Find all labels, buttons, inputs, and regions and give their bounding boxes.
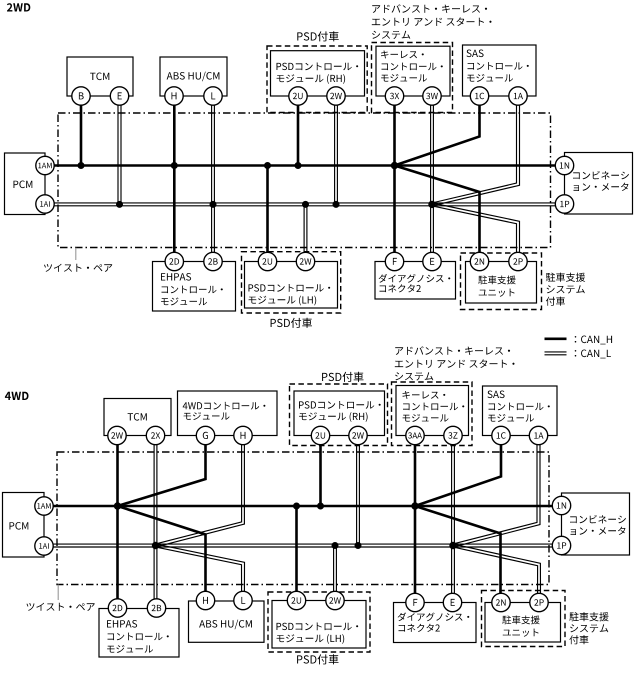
wire CAN_L PSD LH 2W drop (2WD): [303, 204, 305, 261]
pin 1A SAS (4WD): [529, 426, 547, 444]
junction CAN_L at TCM E (2WD): [116, 201, 123, 208]
PSD RH dashed enclosure (2WD): [267, 46, 367, 113]
bus CAN_H (2WD): [45, 164, 565, 167]
junction CAN_L at PSD LH 2W (2WD): [302, 201, 309, 208]
module TCM (2WD): [67, 57, 133, 96]
label PSD-equipped (above PSD RH, 4WD): [322, 372, 363, 382]
pin H ABS (4WD): [196, 591, 214, 609]
wire CAN_H parking 2N branch (2WD): [395, 166, 480, 262]
module ABS HU/CM (4WD): [189, 601, 265, 642]
pin 1C SAS (2WD): [470, 87, 488, 105]
pin 2B EHPAS (4WD): [147, 599, 165, 617]
wire CAN_L TCM 2X / EHPAS 2B drop (4WD): [153, 436, 155, 609]
wire CAN_H parking 2N branch (4WD): [415, 506, 501, 603]
pin B TCM (2WD): [72, 87, 90, 105]
wire CAN_H PSD LH 2U drop (4WD): [295, 506, 298, 601]
pin 2B EHPAS (2WD): [204, 252, 222, 270]
pin 2U PSD RH (2WD): [289, 87, 307, 105]
pin L ABS (2WD): [204, 87, 222, 105]
junction CAN_H main left node (4WD): [114, 502, 121, 509]
module EHPAS control module (4WD): [99, 609, 179, 658]
pin 2D EHPAS (2WD): [165, 252, 183, 270]
keyless dashed enclosure (4WD): [392, 382, 473, 446]
wire CAN_H PSD RH 2U drop (2WD): [297, 96, 300, 166]
wire CAN_L PSD RH 2W drop (4WD): [356, 436, 358, 546]
twisted-pair boundary box (4WD): [57, 452, 549, 585]
module parking assist unit (4WD): [485, 603, 561, 643]
pin 2U PSD RH (4WD): [311, 426, 329, 444]
module PSD control module LH (2WD): [245, 262, 338, 309]
label advanced keyless entry and start system (2WD) line1: [372, 4, 487, 13]
pin 2W PSD RH (2WD): [327, 87, 345, 105]
pin 2W PSD RH (4WD): [349, 426, 367, 444]
pin 1P meter (2WD): [555, 195, 573, 213]
pin 2P parking (4WD): [530, 593, 548, 611]
pin 3Z keyless (4WD): [444, 426, 462, 444]
pin F diagnosis (4WD): [406, 593, 424, 611]
junction CAN_L at ABS L (2WD): [210, 201, 217, 208]
pin 2W PSD LH (4WD): [326, 591, 344, 609]
wire CAN_H 4WD module G branch (4WD): [118, 436, 206, 507]
pin 1AM PCM (4WD): [35, 497, 53, 515]
junction CAN_L at PSD LH 2W (4WD): [332, 542, 339, 549]
pin 2U PSD LH (4WD): [287, 591, 305, 609]
module PSD control module LH (4WD): [272, 601, 366, 649]
twisted-pair callout line (4WD): [57, 585, 59, 601]
pin G 4WD module: [196, 426, 214, 444]
module keyless control module (4WD): [396, 386, 469, 436]
pin 2W TCM (4WD): [108, 426, 126, 444]
legend CAN_H: [545, 336, 613, 345]
label advanced keyless line2 (4WD): [395, 359, 515, 368]
junction CAN_H at PSD LH 2U (2WD): [264, 162, 271, 169]
pin E diagnosis (4WD): [443, 593, 461, 611]
pin 1AI PCM (4WD): [35, 537, 53, 555]
junction CAN_H at TCM B (2WD): [78, 162, 85, 169]
pin 1N meter (2WD): [555, 156, 573, 174]
pin 2U PSD LH (2WD): [258, 252, 276, 270]
wire CAN_L parking 2P branch (4WD): [453, 547, 538, 603]
wire CAN_H TCM B drop (2WD): [80, 96, 83, 166]
junction CAN_L main left node (4WD): [152, 542, 159, 549]
pin H 4WD module: [234, 426, 252, 444]
section title 4WD: [5, 392, 29, 400]
wire CAN_L SAS 1A branch (4WD): [453, 436, 537, 545]
label parking assist system equipped (2WD): [546, 273, 585, 306]
label PSD-equipped (below PSD LH, 4WD): [297, 654, 338, 664]
wire CAN_L SAS 1A branch (2WD): [432, 96, 517, 203]
module combination meter (2WD): [565, 153, 633, 215]
pin 3X keyless (2WD): [385, 87, 403, 105]
junction CAN_L at PSD RH 2W (2WD): [333, 201, 340, 208]
module diagnosis connector 2 (2WD): [375, 262, 456, 300]
module combination meter (4WD): [562, 493, 630, 555]
pin 1AM PCM (2WD): [36, 156, 54, 174]
module TCM (4WD): [104, 399, 171, 436]
module ABS HU/CM (2WD): [160, 57, 227, 96]
junction CAN_H at ABS H (2WD): [171, 162, 178, 169]
module PCM (4WD): [3, 493, 45, 558]
label advanced keyless line3 (2WD): [372, 31, 410, 39]
module EHPAS control module (2WD): [153, 262, 236, 312]
pin F diagnosis (2WD): [385, 252, 403, 270]
PSD LH dashed enclosure (2WD): [242, 252, 341, 313]
twisted-pair boundary box (2WD): [58, 113, 551, 248]
label twisted pair (4WD): [27, 603, 95, 611]
wire CAN_L keyless 3W / diagnosis E drop (2WD): [430, 96, 432, 262]
module 4WD control module (4WD): [178, 391, 278, 436]
legend CAN_L: [545, 350, 611, 359]
wire CAN_H PSD RH 2U drop (4WD): [319, 436, 322, 507]
section title 2WD: [7, 3, 30, 11]
junction CAN_H main right node (4WD): [411, 502, 418, 509]
wire CAN_L 4WD module H branch (4WD): [155, 436, 242, 545]
label advanced keyless line3 (4WD): [395, 372, 433, 380]
wire CAN_L PSD LH 2W drop (4WD): [333, 546, 335, 601]
pin 2W PSD LH (2WD): [296, 252, 314, 270]
twisted-pair callout line (2WD): [75, 248, 77, 261]
module PCM (2WD): [5, 153, 46, 215]
pin 1A SAS (2WD): [509, 87, 527, 105]
pin 2D EHPAS (4WD): [108, 599, 126, 617]
pin L ABS (4WD): [234, 591, 252, 609]
junction CAN_L main node (2WD): [428, 201, 435, 208]
pin E diagnosis (2WD): [423, 252, 441, 270]
parking assist dashed enclosure (2WD): [461, 253, 542, 310]
wire CAN_L ABS L / EHPAS 2B drop (2WD): [211, 96, 213, 262]
pin 1C SAS (4WD): [492, 426, 510, 444]
wire CAN_H TCM 2W / EHPAS 2D drop (4WD): [116, 436, 119, 609]
wire CAN_H SAS 1C branch (2WD): [395, 96, 480, 166]
junction CAN_H at PSD RH 2U (2WD): [295, 162, 302, 169]
label PSD-equipped (above PSD RH, 2WD): [297, 31, 338, 41]
junction CAN_H main node (2WD): [391, 162, 398, 169]
label advanced keyless entry and start system (4WD) line1: [395, 346, 510, 355]
pin 1AI PCM (2WD): [36, 195, 54, 213]
module SAS control module (2WD): [463, 45, 537, 96]
junction CAN_H at PSD RH 2U (4WD): [317, 503, 324, 510]
pin 3W keyless (2WD): [423, 87, 441, 105]
module parking assist unit (2WD): [466, 262, 537, 304]
label PSD-equipped (below PSD LH, 2WD): [271, 318, 312, 328]
module PSD control module RH (4WD): [294, 391, 385, 436]
wire CAN_L TCM E drop (2WD): [117, 96, 119, 204]
pin 1N meter (4WD): [552, 496, 570, 514]
bus CAN_H (4WD): [44, 505, 562, 508]
module SAS control module (4WD): [483, 386, 558, 436]
pin 2P parking (2WD): [509, 252, 527, 270]
wire CAN_L ABS L branch (4WD): [155, 547, 241, 601]
label advanced keyless line2 (2WD): [372, 17, 492, 26]
pin 2N parking (4WD): [492, 593, 510, 611]
pin 2N parking (2WD): [470, 252, 488, 270]
parking assist dashed enclosure (4WD): [482, 591, 566, 647]
wire CAN_H keyless 3X / diagnosis F drop (2WD): [393, 96, 396, 262]
module keyless control module (2WD): [376, 46, 450, 96]
wire CAN_H SAS 1C branch (4WD): [415, 436, 501, 507]
wire CAN_H ABS H / EHPAS 2D drop (2WD): [173, 96, 176, 262]
PSD LH dashed enclosure (4WD): [268, 592, 370, 652]
wire CAN_H PSD LH 2U drop (2WD): [266, 166, 269, 262]
pin 2X TCM (4WD): [146, 426, 164, 444]
pin 3AA keyless (4WD): [406, 426, 424, 444]
junction CAN_L at PSD RH 2W (4WD): [355, 542, 362, 549]
label twisted pair (2WD): [44, 264, 112, 272]
bus CAN_L (4WD): [44, 543, 562, 545]
label parking assist system equipped (4WD): [569, 612, 608, 644]
PSD RH dashed enclosure (4WD): [290, 384, 388, 446]
junction CAN_L main right node (4WD): [449, 542, 456, 549]
pin E TCM (2WD): [110, 87, 128, 105]
junction CAN_H at PSD LH 2U (4WD): [293, 503, 300, 510]
module PSD control module RH (2WD): [271, 51, 365, 96]
pin 1P meter (4WD): [552, 536, 570, 554]
wire CAN_H keyless 3AA / diagnosis F drop (4WD): [414, 436, 417, 603]
pin H ABS (2WD): [165, 87, 183, 105]
module diagnosis connector 2 (4WD): [394, 603, 477, 643]
keyless dashed enclosure (2WD): [372, 43, 453, 113]
wire CAN_L PSD RH 2W drop (2WD): [334, 96, 336, 204]
wire CAN_L keyless 3Z / diagnosis E drop (4WD): [451, 436, 453, 603]
wire CAN_H ABS H branch (4WD): [118, 506, 206, 601]
bus CAN_L (2WD): [45, 202, 565, 204]
wire CAN_L parking 2P branch (2WD): [432, 206, 517, 262]
